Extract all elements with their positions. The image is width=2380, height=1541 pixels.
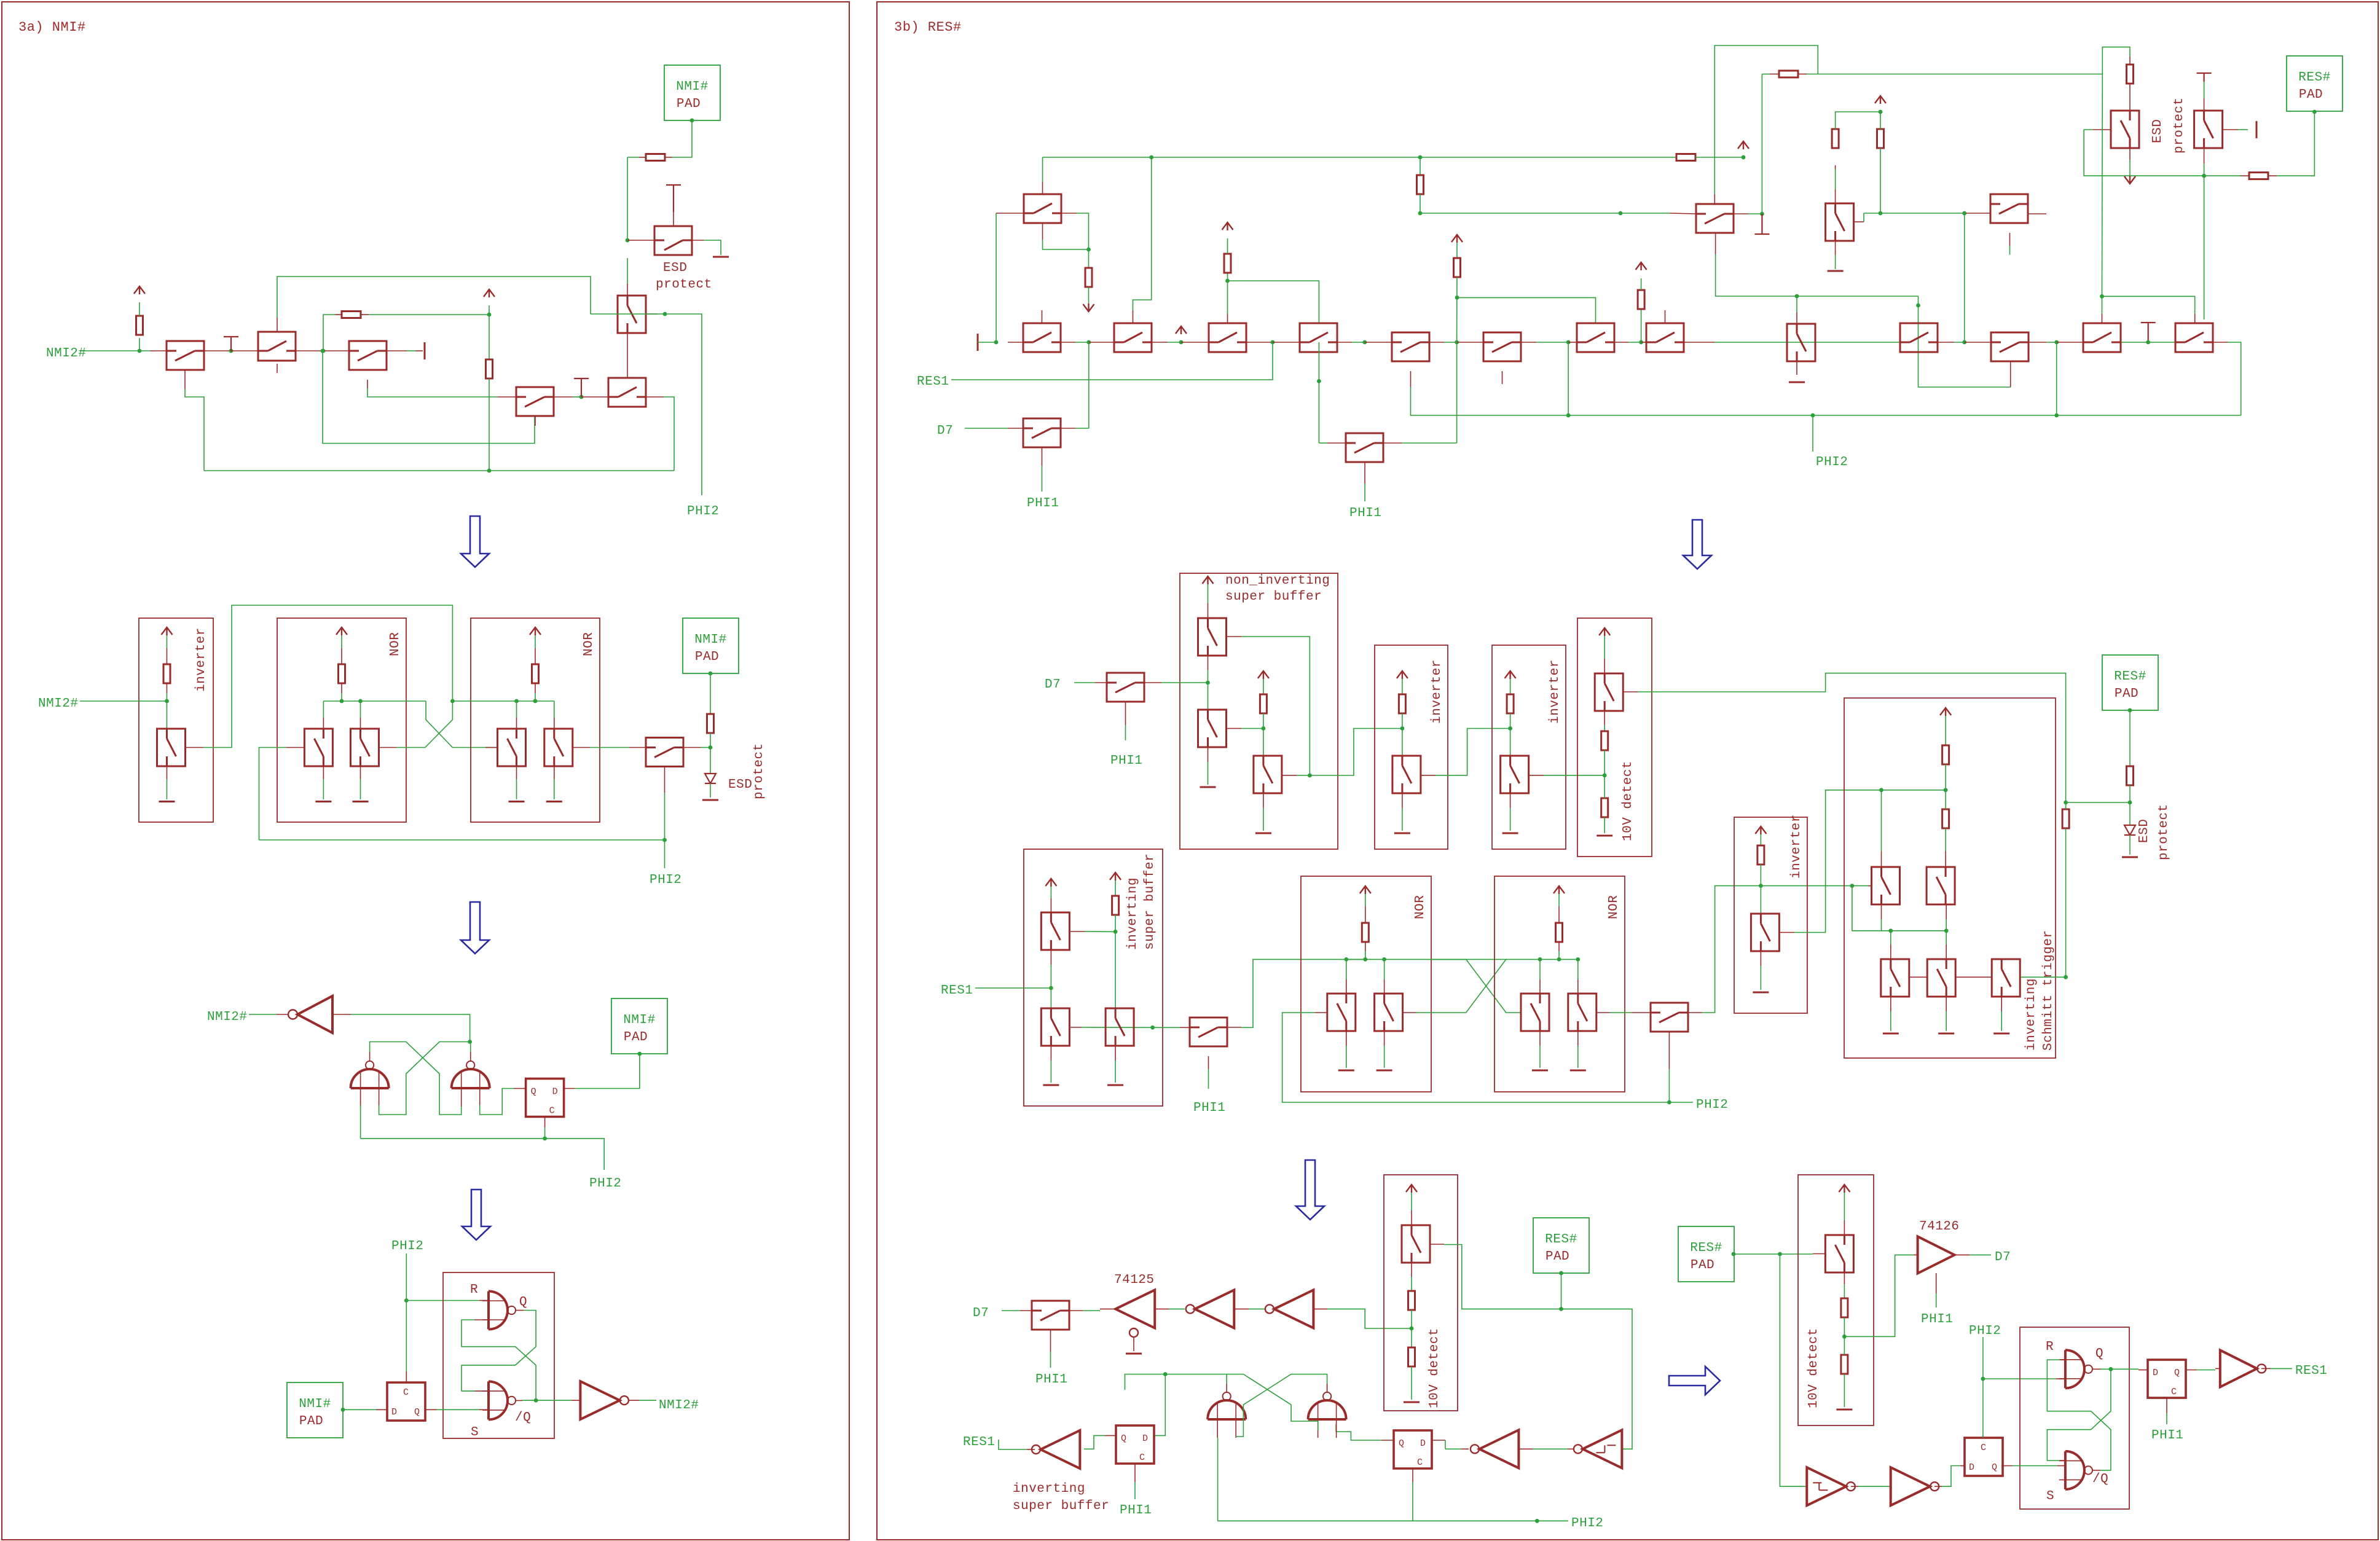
wire R33 down	[1844, 1374, 1845, 1407]
flip-flop FF2 stage3	[1394, 1430, 1432, 1468]
lead Q6 to tie	[554, 396, 573, 398]
lead NAND S out	[516, 1400, 522, 1401]
lead FF Q	[425, 1409, 436, 1410]
wire to B7 gate	[1457, 297, 1596, 323]
input end bar	[977, 334, 979, 351]
wire FF2 Q to NAND-B in	[1336, 1432, 1381, 1440]
resistor R29	[2127, 766, 2134, 785]
lead FF C	[544, 1117, 546, 1128]
transistor VN1	[1327, 994, 1356, 1031]
VDD arrow INV1	[1397, 671, 1408, 679]
wire M5 gate to M-P2	[1319, 442, 1327, 444]
wire NMI2# stage3	[249, 1014, 277, 1015]
wire vdd to VP1	[1050, 887, 1051, 898]
lead NAND S4 in1	[2060, 1460, 2065, 1461]
resistor R1 pull-up	[136, 316, 143, 335]
blue arrow stage2-3 left	[461, 902, 489, 954]
junction NOR2 node-C	[514, 699, 519, 704]
resistor R18	[1399, 694, 1405, 713]
resistor R26	[1942, 745, 1949, 764]
junction pad pin	[690, 119, 694, 123]
svg-text:S: S	[2046, 1489, 2054, 1504]
VSS arrow below R9	[1083, 304, 1094, 312]
lead	[1365, 942, 1366, 951]
transistor VI1	[1392, 756, 1421, 793]
ground VP2	[1043, 1084, 1059, 1086]
transistor VL2	[1927, 959, 1955, 997]
wire PHI2 run stage2	[259, 839, 665, 841]
gate lead VMI	[1780, 932, 1794, 933]
svg-text:RES1: RES1	[917, 375, 949, 389]
junction schmitt column	[1778, 1252, 1782, 1257]
lead FF D	[376, 1409, 387, 1410]
wire	[1577, 1046, 1579, 1068]
wire NOR2R node line	[1540, 959, 1578, 960]
wire E1 riser to top	[1761, 74, 1762, 214]
transistor VN4	[1568, 994, 1596, 1031]
wire	[1050, 1061, 1051, 1083]
svg-text:Q: Q	[1992, 1462, 1998, 1473]
junction ESD node	[2202, 174, 2206, 178]
wire NAND1 in to PHI2 rail	[360, 1105, 361, 1139]
wire R25 to node	[1760, 865, 1761, 886]
junction at ground tie	[229, 349, 234, 353]
wire feedback bottom run	[204, 470, 674, 471]
lead	[1558, 942, 1560, 951]
lead FF Q	[514, 1088, 526, 1089]
gate lead VA	[1227, 636, 1241, 637]
wire E2 to R15	[1835, 169, 1836, 189]
transistor ESD1	[2111, 111, 2139, 148]
gate lead VT1 right	[1624, 691, 1638, 692]
box inverting super buffer	[1024, 849, 1163, 1106]
svg-text:10V detect: 10V detect	[1621, 761, 1635, 841]
lead into E3	[1966, 213, 1990, 214]
transistor MD7 pass	[1107, 673, 1144, 702]
junction row2 / riser	[1962, 211, 1966, 216]
wire	[1243, 1374, 1291, 1405]
wire VP1 gate to R node	[1085, 931, 1115, 932]
wire to VTD4 gate	[1780, 1253, 1813, 1255]
gate lead ESD2	[2223, 129, 2238, 130]
wire to R4T gate	[2102, 296, 2195, 314]
wire PHI2 rail stage2R	[1282, 1013, 1670, 1102]
flip-flop FF4 stage4	[2148, 1360, 2186, 1398]
resistor R10	[1224, 254, 1231, 273]
wire RES1 into ISB	[975, 987, 1051, 989]
junction NOR2R node-R	[1557, 957, 1561, 962]
wire pad to R4	[672, 120, 692, 157]
lead NAND S in2	[479, 1409, 489, 1410]
svg-text:Q: Q	[2174, 1368, 2180, 1378]
resistor R32	[1841, 1298, 1848, 1317]
junction INV1 node	[1400, 726, 1405, 731]
svg-text:NMI#: NMI#	[676, 80, 708, 94]
bulk stub Q2	[277, 364, 278, 373]
wire buffer out	[639, 1400, 656, 1401]
wire pad to R8	[710, 673, 711, 714]
wire VC ground	[1263, 808, 1264, 831]
svg-text:protect: protect	[752, 743, 766, 799]
gate lead Q8	[186, 747, 203, 748]
svg-text:ESD: ESD	[2151, 119, 2165, 143]
wire	[1510, 808, 1511, 831]
lead QA drain	[323, 718, 324, 729]
wire VI1 gate to INV2	[1435, 729, 1510, 775]
lead V1 bottom	[1796, 361, 1797, 375]
gate lead M-P2	[1364, 462, 1365, 484]
gate stub M1	[1042, 310, 1043, 323]
ground VL3	[1993, 1033, 2009, 1035]
wire R14 to pad	[2277, 112, 2314, 176]
lead VN2	[1384, 979, 1385, 994]
wire E2 gate jog	[1863, 213, 1864, 222]
wire	[1115, 1061, 1116, 1083]
wire VB gate to R node	[1241, 728, 1263, 729]
resistor R17	[1260, 694, 1267, 713]
gate lead Q1	[184, 371, 186, 389]
wire	[323, 779, 324, 799]
svg-text:PHI2: PHI2	[1696, 1098, 1728, 1112]
lead buf6 out	[2261, 1368, 2271, 1369]
lead inv4 in	[1518, 1448, 1533, 1449]
wire pad line loop to schmitt	[1561, 1309, 1633, 1449]
lead VL3 bottom	[2001, 997, 2002, 1011]
wire diode to ground	[2129, 835, 2131, 855]
wire R4T out to rail	[2228, 342, 2241, 415]
wire VA gate to out	[1241, 637, 1310, 775]
ground VN3	[1532, 1070, 1548, 1072]
lead VT1 top	[1604, 659, 1605, 673]
resistor R5 load	[163, 664, 170, 683]
svg-text:PAD: PAD	[299, 1414, 323, 1429]
svg-text:D7: D7	[1045, 678, 1061, 692]
flip-flop stage3	[526, 1079, 564, 1117]
transistor M4	[1209, 323, 1246, 352]
wire node to VN1	[1346, 959, 1347, 979]
box RS latch stage4R	[2020, 1327, 2129, 1509]
lead NAND B out	[1327, 1384, 1328, 1392]
VDD arrow on row	[1176, 326, 1187, 334]
lead into B7	[1568, 342, 1577, 343]
wire	[2065, 802, 2067, 809]
svg-text:D: D	[2153, 1368, 2159, 1378]
ground VL1	[1883, 1033, 1899, 1035]
lead NAND R4 in1	[2060, 1359, 2065, 1360]
wire to RES1	[999, 1440, 1027, 1449]
transistor VC	[1254, 756, 1282, 793]
wire riser to rail	[2056, 342, 2057, 415]
wire VC gate to out	[1297, 775, 1310, 776]
resistor R8 series	[707, 714, 714, 733]
wire to R1	[139, 338, 140, 351]
wire VL3 out to colA	[2021, 976, 2065, 978]
wire mid column upper	[1420, 157, 1421, 175]
wire NAND1 out to NAND2 in	[370, 1042, 461, 1115]
lead QD source	[554, 766, 555, 779]
lead M5 right	[1337, 342, 1352, 343]
lead	[535, 648, 536, 664]
lead V1 top	[1796, 312, 1797, 324]
transistor Q8 inverter driver	[157, 729, 186, 766]
lead into MP2	[1632, 1012, 1651, 1013]
flip-flop FF3 stage4	[1965, 1438, 2003, 1476]
junction VX2/VL2	[1944, 928, 1949, 933]
lead NAND1 out	[369, 1052, 371, 1062]
gate lead MP2	[1668, 1032, 1670, 1069]
wire R36 down to row	[1456, 277, 1458, 342]
lead VP3 bottom	[1115, 1046, 1116, 1061]
ground QB	[353, 801, 369, 802]
wire	[1946, 1011, 1947, 1031]
lead B8 right	[1684, 342, 1714, 343]
junction R2T/tie	[2054, 340, 2059, 345]
resistor R31	[1408, 1347, 1415, 1367]
wire buf5 to FF3 D	[1942, 1466, 1960, 1487]
wire R3T gate up	[2102, 296, 2103, 314]
gate lead Q7	[673, 212, 674, 226]
wire MP1 to NOR1R node	[1241, 959, 1365, 1027]
wire riser to rail	[1568, 342, 1569, 415]
wire to diode	[2129, 802, 2131, 825]
junction VDD pullup row	[1639, 340, 1643, 345]
lead VN2 bottom	[1384, 1031, 1385, 1046]
VDD arrow above R16	[1875, 96, 1886, 104]
transistor VX2	[1926, 867, 1955, 904]
gate lead M5 through	[1318, 342, 1319, 381]
lead B5 right	[1429, 342, 1444, 343]
lead M1 right	[1061, 342, 1075, 343]
lead buffer in	[1914, 1254, 1918, 1255]
VDD arrow TD	[1599, 628, 1610, 636]
svg-text:PAD: PAD	[1691, 1258, 1714, 1272]
gate lead VI2	[1530, 775, 1544, 776]
lead R14 right	[2268, 175, 2277, 176]
inverting super buffer stage3	[1032, 1430, 1080, 1468]
wire diode to ground	[710, 783, 711, 798]
diode ESD stage2R	[2124, 825, 2135, 835]
wire PHI2 riser to QA gate	[259, 748, 287, 841]
wire FF1 C to PHI1	[1134, 1482, 1136, 1499]
wire FF Q to NAND S	[436, 1409, 479, 1410]
wire FF C down	[544, 1127, 546, 1139]
ground QD	[546, 801, 562, 802]
wire latch out to inverter	[351, 1014, 470, 1042]
gate lead Q5 from Q4	[627, 332, 628, 378]
junction PHI2 / NAND R4	[1981, 1377, 1985, 1381]
svg-text:non_inverting: non_inverting	[1225, 574, 1330, 588]
wire riser to row2	[1964, 213, 1965, 342]
lead into MP1	[1180, 1027, 1190, 1028]
transistor E3	[1990, 194, 2028, 223]
svg-text:inverter: inverter	[1548, 659, 1562, 724]
lead VN3	[1539, 979, 1541, 994]
lead MP1 right	[1227, 1027, 1241, 1028]
svg-text:D7: D7	[1995, 1250, 2011, 1265]
svg-text:D: D	[391, 1407, 398, 1417]
lead Q9 right	[683, 747, 701, 748]
ground VP3	[1107, 1084, 1123, 1086]
wire top run to right	[1807, 74, 2102, 75]
gate lead VTD3	[1430, 1244, 1444, 1245]
lead QB drain	[360, 718, 361, 729]
transistor Q5	[608, 378, 646, 407]
resistor R28 colA	[2062, 809, 2069, 828]
lead VX1 top	[1881, 851, 1882, 867]
svg-text:ESD: ESD	[728, 778, 752, 792]
resistor R30	[1408, 1291, 1415, 1310]
wire to VL1	[1890, 931, 1891, 944]
wire vdd to VA	[1208, 584, 1209, 603]
wire PHI2 rail stage3	[361, 1139, 605, 1170]
box 10V detect stage3	[1384, 1175, 1458, 1411]
wire	[1352, 342, 1365, 343]
resistor R14 series pad	[2249, 173, 2268, 179]
lead into M3	[1089, 342, 1114, 343]
transistor VT1	[1595, 673, 1623, 711]
junction PHI2 / R input	[404, 1298, 409, 1303]
junction R10 node	[1225, 279, 1230, 283]
wire vdd to R36	[1456, 243, 1458, 258]
junction pad pin stage2R	[2128, 708, 2132, 713]
VDD arrow ISB2	[1110, 872, 1121, 880]
svg-text:protect: protect	[2157, 804, 2171, 860]
lead into Q6	[498, 396, 516, 398]
pad NMI# stage3	[611, 998, 667, 1054]
wire node to VN2	[1384, 959, 1385, 979]
wire V1 top up	[1796, 296, 1797, 312]
junction colA / pad line	[2064, 801, 2068, 805]
wire	[516, 779, 517, 799]
lead	[341, 683, 342, 693]
svg-text:3a) NMI#: 3a) NMI#	[18, 20, 86, 35]
svg-text:NOR: NOR	[1607, 895, 1621, 919]
svg-text:NMI#: NMI#	[299, 1397, 331, 1411]
wire	[1748, 213, 1762, 214]
pad RES# stage2	[2102, 655, 2158, 710]
lead R4 left	[639, 157, 646, 158]
svg-text:NMI2#: NMI2#	[46, 347, 87, 361]
box 10V detect stage4	[1798, 1175, 1874, 1425]
gate lead VB	[1227, 728, 1241, 729]
transistor VL1	[1881, 959, 1909, 997]
wire vdd to VTD4	[1844, 1193, 1845, 1220]
wire M-P2 gate to PHI1	[1364, 484, 1365, 501]
lead inv2 in	[1234, 1308, 1249, 1309]
ground diode	[702, 799, 718, 801]
wire node to QD	[554, 701, 555, 718]
lead Q1 to Q2	[204, 350, 231, 351]
lead inv3 in	[1313, 1308, 1327, 1309]
transistor VA	[1198, 618, 1227, 656]
lead E3 right	[2028, 213, 2046, 214]
wire pad branch down	[627, 157, 628, 240]
lead VP2 bottom	[1050, 1046, 1051, 1061]
wire FF4 C to PHI1	[2166, 1413, 2167, 1424]
VSS arrow ESD1	[2124, 176, 2135, 184]
wire to RES1	[2271, 1368, 2292, 1369]
wire PHI2 drop	[665, 314, 702, 495]
box inverter R2	[1492, 645, 1566, 849]
lead into B5	[1365, 342, 1392, 343]
svg-text:D: D	[1420, 1438, 1426, 1449]
wire PHI2 vertical stage4	[406, 1253, 407, 1383]
wire FF D to pad	[575, 1054, 639, 1089]
junction NB out	[1308, 774, 1312, 778]
wire	[1365, 894, 1366, 906]
lead buffer out	[1100, 1308, 1116, 1309]
wire	[2129, 160, 2131, 176]
junction detect node stage4	[1842, 1335, 1847, 1339]
VDD arrow top run	[1738, 141, 1749, 149]
junction NOR2R node-B	[1576, 957, 1580, 962]
lead FF D	[564, 1088, 575, 1089]
wire	[360, 779, 361, 799]
lead into R2T	[1965, 342, 1991, 343]
wire crosscouple B	[396, 701, 452, 748]
lead NAND R in1	[479, 1300, 489, 1301]
lead M-P2 right	[1384, 442, 1402, 444]
gate lead QB	[379, 747, 397, 748]
wire node to VMI	[1760, 886, 1761, 914]
wire	[1844, 1284, 1845, 1298]
gate lead VN2	[1404, 1012, 1416, 1013]
junction D7 node	[1206, 681, 1210, 685]
wire VP2 gate crossing	[1082, 1027, 1153, 1028]
wire schmitt to inv	[1533, 1448, 1568, 1449]
wire R26 down	[1945, 764, 1946, 790]
wire node to QA	[323, 701, 324, 718]
junction ESD node stage2R	[2128, 801, 2132, 805]
svg-text:C: C	[549, 1106, 556, 1116]
svg-text:R: R	[470, 1283, 478, 1297]
wire node to VN3	[1539, 959, 1541, 979]
lead into MD7	[1095, 682, 1107, 683]
wire inv4 to FF2	[1445, 1448, 1461, 1449]
transistor VP3	[1106, 1008, 1134, 1046]
junction PHI2 rail stage3	[543, 1137, 547, 1141]
wire VX1 drain up	[1881, 790, 1882, 851]
buffer NMI2# stage4	[580, 1381, 629, 1419]
wire enable to PHI1	[1936, 1293, 1937, 1308]
pad RES# stage1R	[2287, 56, 2343, 111]
resistor R25	[1758, 845, 1764, 865]
transistor E1	[1696, 204, 1734, 233]
wire MD7 to node	[1161, 682, 1208, 683]
lead buf6 in	[2215, 1368, 2220, 1369]
gate lead VN1	[1315, 1012, 1327, 1013]
wire Q3 node to Q6 gate	[323, 351, 535, 444]
junction VDD tie row	[1179, 340, 1184, 345]
svg-text:ESD: ESD	[2137, 819, 2151, 843]
wire /Q to buffer	[536, 1400, 571, 1401]
lead FF2 Q	[1381, 1440, 1394, 1441]
gate lead E3	[2009, 233, 2011, 246]
svg-text:C: C	[2171, 1387, 2177, 1397]
lead QB source	[360, 766, 361, 779]
lead R4T right	[2213, 342, 2228, 343]
ground tie right row	[2141, 323, 2156, 342]
wire	[1402, 713, 1403, 729]
transistor QD NOR2	[544, 729, 573, 766]
VDD arrow TD3	[1406, 1185, 1417, 1193]
junction NAND2 out	[468, 1040, 472, 1044]
svg-text:PAD: PAD	[1545, 1250, 1569, 1264]
wire input	[978, 342, 996, 343]
resistor R12	[1779, 71, 1798, 77]
wire D7	[965, 428, 1008, 429]
wire M5 gate to M-P2	[1318, 381, 1319, 443]
